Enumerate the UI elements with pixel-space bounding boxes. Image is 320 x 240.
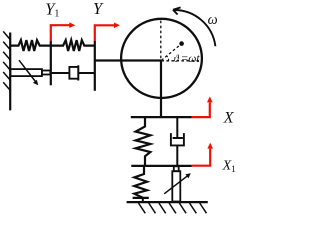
damper c2 (node Y1 to node Y) bbox=[51, 72, 70, 74]
rotation arrow omega (curved) bbox=[174, 10, 216, 46]
variable damper c1 adjust arrow bbox=[19, 60, 38, 85]
svg-text:Y: Y bbox=[93, 0, 104, 18]
spring k3 (node X to node X1) bbox=[136, 117, 151, 166]
svg-text:X: X bbox=[223, 109, 235, 126]
dashed radius to eccentric mass bbox=[161, 44, 181, 61]
variable damper c4 (node X1 to ground) bbox=[172, 166, 180, 201]
svg-text:X1: X1 bbox=[222, 159, 237, 175]
wire link rotor center down to node X bbox=[160, 61, 162, 118]
svg-text:ϑ=ωt: ϑ=ωt bbox=[174, 53, 201, 65]
spring k1 (wall to node Y1) bbox=[11, 40, 51, 51]
spring k4 (node X1 to ground) bbox=[134, 166, 147, 198]
damper c3 (node X to node X1) bbox=[176, 117, 178, 138]
red axis arrow X bbox=[192, 96, 213, 117]
ground hatching bbox=[139, 203, 207, 213]
wall (left fixed support) bbox=[9, 33, 11, 111]
variable damper c4 adjust arrow bbox=[164, 173, 191, 194]
angle arc theta bbox=[167, 56, 169, 61]
node bar X1 (horizontal link) bbox=[131, 165, 192, 167]
wall hatching bbox=[3, 31, 11, 91]
spring k2 (node Y1 to node Y) bbox=[51, 40, 95, 51]
svg-text:Y1: Y1 bbox=[45, 0, 59, 20]
svg-text:ω: ω bbox=[208, 12, 218, 28]
variable damper c1 (wall to node Y1) bbox=[10, 69, 50, 76]
ground (bottom fixed support) bbox=[127, 201, 208, 203]
node bar Y1 (vertical link) bbox=[50, 41, 52, 86]
eccentric mass dot bbox=[179, 41, 184, 46]
red axis arrow Y bbox=[95, 23, 120, 42]
node bar Y (vertical link) bbox=[94, 41, 96, 91]
red axis arrow X1 bbox=[192, 143, 213, 166]
rotor disc (unbalanced wheel) bbox=[121, 19, 202, 98]
wire link node Y to rotor center bbox=[95, 59, 162, 61]
red axis arrow Y1 bbox=[51, 22, 76, 41]
dashed radius line vertical bbox=[160, 21, 162, 61]
node bar X (horizontal link) bbox=[131, 116, 192, 118]
dashed horizontal reference line bbox=[161, 60, 200, 62]
